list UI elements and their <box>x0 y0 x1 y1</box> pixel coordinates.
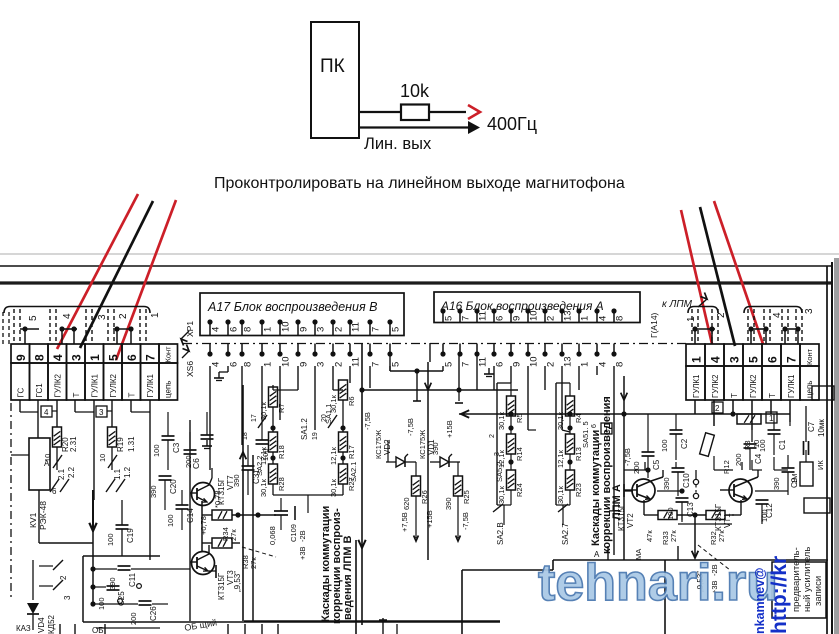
svg-text:R13: R13 <box>574 447 583 461</box>
svg-text:3: 3 <box>728 356 742 363</box>
svg-text:390: 390 <box>444 497 453 510</box>
svg-text:2: 2 <box>118 313 129 319</box>
svg-text:„9,53”: „9,53” <box>233 571 242 592</box>
svg-text:R23: R23 <box>574 483 583 497</box>
svg-text:30,1к: 30,1к <box>497 485 506 504</box>
svg-text:ГУЛК1: ГУЛК1 <box>91 373 100 397</box>
svg-text:-7,5В: -7,5В <box>623 448 632 466</box>
svg-text:6: 6 <box>591 424 598 428</box>
svg-text:18: 18 <box>242 432 249 440</box>
svg-text:2: 2 <box>546 362 557 367</box>
svg-text:0,068: 0,068 <box>268 526 277 545</box>
svg-text:записи: записи <box>813 576 824 606</box>
svg-text:1: 1 <box>686 316 697 322</box>
svg-text:ГУЛК1: ГУЛК1 <box>787 374 796 398</box>
svg-text:ОБ щий: ОБ щий <box>184 617 218 633</box>
svg-text:R19: R19 <box>116 437 125 452</box>
svg-text:С10: С10 <box>682 473 691 488</box>
svg-text:SА5.2: SА5.2 <box>495 462 504 482</box>
svg-text:13: 13 <box>563 310 574 321</box>
svg-text:Конт: Конт <box>164 346 173 363</box>
svg-text:1: 1 <box>580 316 591 321</box>
svg-text:2: 2 <box>715 404 720 413</box>
svg-text:-7,5В: -7,5В <box>406 418 415 436</box>
svg-text:R18: R18 <box>277 445 286 459</box>
svg-text:ГУЛК2: ГУЛК2 <box>749 374 758 398</box>
svg-text:-7,5В: -7,5В <box>363 412 372 430</box>
svg-text:30,1к: 30,1к <box>259 478 268 497</box>
svg-text:200: 200 <box>632 461 641 474</box>
svg-text:3: 3 <box>494 452 501 456</box>
svg-text:КТ315Г: КТ315Г <box>217 572 226 600</box>
svg-text:Т: Т <box>768 393 777 398</box>
svg-text:КД52: КД52 <box>47 614 56 634</box>
svg-text:С19: С19 <box>126 528 135 543</box>
svg-text:10: 10 <box>529 356 540 367</box>
svg-text:1.1: 1.1 <box>113 468 122 480</box>
svg-text:С14: С14 <box>186 508 195 523</box>
svg-text:5: 5 <box>28 315 39 321</box>
svg-text:3: 3 <box>316 327 327 332</box>
svg-text:КАЗ: КАЗ <box>16 624 31 633</box>
svg-text:3: 3 <box>97 314 108 320</box>
svg-text:Т: Т <box>730 393 739 398</box>
svg-text:6: 6 <box>766 356 780 363</box>
svg-text:4: 4 <box>772 312 783 318</box>
svg-text:5: 5 <box>444 316 455 321</box>
svg-text:Г(А14): Г(А14) <box>649 312 659 338</box>
svg-text:С6: С6 <box>191 458 201 469</box>
svg-text:620: 620 <box>402 497 411 510</box>
svg-text:к ЛПМ: к ЛПМ <box>662 299 693 310</box>
svg-text:390: 390 <box>108 577 117 590</box>
svg-text:SА1.2: SА1.2 <box>300 418 309 440</box>
svg-text:1: 1 <box>580 362 591 367</box>
svg-text:47к: 47к <box>645 530 654 542</box>
svg-text:цепь: цепь <box>164 381 173 398</box>
svg-text:КТ315Г: КТ315Г <box>617 503 626 531</box>
svg-text:КV1: КV1 <box>28 512 38 528</box>
svg-text:30,1к: 30,1к <box>329 478 338 497</box>
svg-text:2.2: 2.2 <box>67 466 76 478</box>
svg-text:10: 10 <box>529 310 540 321</box>
svg-text:13: 13 <box>563 356 574 367</box>
svg-text:КС175Ж: КС175Ж <box>374 430 383 459</box>
svg-text:VT7: VT7 <box>226 475 235 490</box>
svg-text:1: 1 <box>769 414 774 423</box>
svg-text:С7: С7 <box>807 421 816 432</box>
svg-text:С1: С1 <box>778 439 787 450</box>
svg-text:7: 7 <box>785 356 799 363</box>
svg-text:10: 10 <box>281 321 292 332</box>
svg-text:4: 4 <box>211 362 222 367</box>
svg-text:ОБ: ОБ <box>92 626 103 634</box>
svg-text:100: 100 <box>758 439 767 452</box>
svg-text:R17: R17 <box>347 445 356 459</box>
svg-text:SА2.1: SА2.1 <box>349 462 358 482</box>
svg-text:9: 9 <box>512 316 523 321</box>
svg-text:1М: 1М <box>790 474 799 484</box>
svg-text:9: 9 <box>14 354 28 361</box>
svg-text:ГС: ГС <box>17 388 26 398</box>
svg-text:tehnari.ru: tehnari.ru <box>538 554 778 612</box>
svg-text:С12: С12 <box>765 503 774 518</box>
svg-text:7: 7 <box>371 327 382 332</box>
svg-text:SА2.2: SА2.2 <box>255 456 264 476</box>
svg-text:4: 4 <box>598 316 609 321</box>
svg-text:1: 1 <box>690 356 704 363</box>
svg-text:С3: С3 <box>172 442 181 453</box>
svg-text:1: 1 <box>150 312 161 318</box>
svg-text:6: 6 <box>229 327 240 332</box>
svg-text:8: 8 <box>243 327 254 332</box>
svg-text:коррекции воспроизведения: коррекции воспроизведения <box>601 396 613 554</box>
svg-text:27к: 27к <box>669 530 678 542</box>
svg-text:1: 1 <box>263 362 274 367</box>
svg-text:С4: С4 <box>754 453 763 464</box>
svg-text:27к: 27к <box>249 557 258 569</box>
svg-text:7: 7 <box>461 316 472 321</box>
svg-text:*0,78: *0,78 <box>213 490 222 508</box>
svg-text:27к: 27к <box>717 530 726 542</box>
svg-text:ный усилитель: ный усилитель <box>802 547 813 612</box>
svg-text:6: 6 <box>495 316 506 321</box>
svg-text:3: 3 <box>316 362 327 367</box>
svg-text:390: 390 <box>772 477 781 490</box>
svg-text:4: 4 <box>598 362 609 367</box>
svg-text:5: 5 <box>747 356 761 363</box>
svg-text:Т: Т <box>128 393 137 398</box>
svg-text:5: 5 <box>391 327 402 332</box>
svg-text:3: 3 <box>70 354 84 361</box>
svg-text:2: 2 <box>489 434 496 438</box>
svg-text:12,1к: 12,1к <box>556 449 565 468</box>
svg-text:-2В: -2В <box>298 530 307 542</box>
svg-text:R14: R14 <box>515 447 524 461</box>
svg-text:ХS6: ХS6 <box>185 361 195 377</box>
svg-text:ГС1: ГС1 <box>35 383 44 398</box>
svg-text:2: 2 <box>716 312 727 318</box>
svg-text:ГУЛК2: ГУЛК2 <box>711 374 720 398</box>
svg-text:10: 10 <box>281 356 292 367</box>
svg-text:8: 8 <box>243 362 254 367</box>
svg-text:3: 3 <box>804 308 815 314</box>
svg-text:R25: R25 <box>462 490 471 504</box>
svg-text:+15В: +15В <box>445 420 454 438</box>
svg-text:R24: R24 <box>515 483 524 497</box>
svg-text:SА51. 5: SА51. 5 <box>581 421 590 448</box>
svg-text:R6: R6 <box>347 396 356 406</box>
svg-text:А17 Блок воспроизведения В: А17 Блок воспроизведения В <box>207 300 377 314</box>
svg-text:КТ315Г: КТ315Г <box>714 503 723 531</box>
svg-text:10: 10 <box>98 454 107 462</box>
svg-text:5: 5 <box>444 362 455 367</box>
svg-text:9: 9 <box>299 327 310 332</box>
svg-text:1: 1 <box>263 327 274 332</box>
svg-text:1: 1 <box>88 354 102 361</box>
svg-text:VD4: VD4 <box>37 617 46 633</box>
svg-text:6: 6 <box>495 362 506 367</box>
svg-text:4: 4 <box>211 327 222 332</box>
svg-text:390: 390 <box>149 485 158 498</box>
svg-text:19: 19 <box>312 432 319 440</box>
svg-text:9: 9 <box>299 362 310 367</box>
svg-text:200: 200 <box>129 612 138 625</box>
svg-text:ГУЛК1: ГУЛК1 <box>146 373 155 397</box>
svg-text:10мк: 10мк <box>817 419 826 437</box>
svg-text:11: 11 <box>351 357 362 367</box>
svg-text:Т: Т <box>72 393 81 398</box>
svg-text:6: 6 <box>229 362 240 367</box>
svg-text:Конт: Конт <box>805 348 814 365</box>
svg-text:ИК: ИК <box>816 460 825 470</box>
svg-text:R7: R7 <box>277 403 286 413</box>
svg-text:ХР1: ХР1 <box>185 321 195 337</box>
svg-text:R12: R12 <box>722 460 731 474</box>
svg-text:8: 8 <box>33 354 47 361</box>
svg-text:100: 100 <box>660 439 669 452</box>
svg-text:1: 1 <box>604 425 609 434</box>
svg-text:С2: С2 <box>680 438 689 449</box>
svg-text:С26: С26 <box>149 606 158 621</box>
svg-text:С20: С20 <box>169 479 178 494</box>
svg-text:-7,5В: -7,5В <box>461 512 470 530</box>
svg-text:ГУЛК1: ГУЛК1 <box>692 374 701 398</box>
svg-text:6: 6 <box>125 354 139 361</box>
svg-text:http://kr: http://kr <box>768 556 791 634</box>
svg-text:390: 390 <box>431 442 440 455</box>
svg-text:+3В: +3В <box>298 546 307 560</box>
svg-text:+7,5В: +7,5В <box>400 512 409 532</box>
svg-text:2: 2 <box>546 316 557 321</box>
svg-text:12,1к: 12,1к <box>329 446 338 465</box>
svg-text:А: А <box>44 459 50 468</box>
svg-text:VT2: VT2 <box>626 513 635 528</box>
svg-text:2.1: 2.1 <box>57 468 66 480</box>
svg-text:11: 11 <box>478 311 489 321</box>
svg-text:КС175Ж: КС175Ж <box>418 430 427 459</box>
svg-text:11: 11 <box>478 357 489 367</box>
svg-text:100: 100 <box>152 444 161 457</box>
svg-text:30,1к: 30,1к <box>556 485 565 504</box>
svg-text:ГУЛК2: ГУЛК2 <box>54 373 63 397</box>
svg-text:ГУЛК2: ГУЛК2 <box>109 373 118 397</box>
svg-text:390: 390 <box>662 477 671 490</box>
svg-text:SА1.1: SА1.1 <box>324 404 333 424</box>
svg-text:3: 3 <box>63 595 72 600</box>
svg-text:4: 4 <box>62 313 73 319</box>
svg-text:8: 8 <box>615 362 626 367</box>
svg-text:27к: 27к <box>229 529 238 541</box>
svg-text:R28: R28 <box>277 477 286 491</box>
svg-text:100: 100 <box>166 514 175 527</box>
svg-text:nkamnev@: nkamnev@ <box>753 568 767 634</box>
svg-text:4: 4 <box>709 356 723 363</box>
svg-text:4: 4 <box>51 354 65 361</box>
svg-text:С5: С5 <box>652 459 661 470</box>
svg-text:5: 5 <box>391 362 402 367</box>
svg-text:17: 17 <box>251 414 258 422</box>
svg-text:3: 3 <box>99 408 104 417</box>
svg-text:4: 4 <box>44 408 49 417</box>
svg-text:предваритель-: предваритель- <box>791 547 802 612</box>
svg-text:2: 2 <box>59 575 68 580</box>
svg-text:SА2.В: SА2.В <box>496 522 505 545</box>
svg-text:5: 5 <box>107 354 121 361</box>
svg-text:+15В: +15В <box>425 510 434 528</box>
svg-text:30,1к: 30,1к <box>259 401 268 420</box>
svg-text:1.2: 1.2 <box>123 466 132 478</box>
svg-text:7: 7 <box>371 362 382 367</box>
svg-text:С11: С11 <box>128 572 137 587</box>
svg-text:2.31: 2.31 <box>69 436 78 452</box>
svg-text:8: 8 <box>615 316 626 321</box>
svg-text:9: 9 <box>512 362 523 367</box>
svg-text:11: 11 <box>351 322 362 332</box>
svg-text:7: 7 <box>144 354 158 361</box>
svg-text:SА2.7: SА2.7 <box>561 523 570 545</box>
svg-text:7: 7 <box>461 362 472 367</box>
svg-text:2: 2 <box>334 327 345 332</box>
svg-text:+0,78: +0,78 <box>199 516 208 535</box>
svg-text:100: 100 <box>106 533 115 546</box>
svg-text:1.31: 1.31 <box>127 436 136 452</box>
svg-text:R5: R5 <box>515 413 524 423</box>
svg-text:ведения ЛПМ В: ведения ЛПМ В <box>342 535 354 620</box>
svg-text:2: 2 <box>334 362 345 367</box>
svg-text:С109: С109 <box>289 524 298 542</box>
